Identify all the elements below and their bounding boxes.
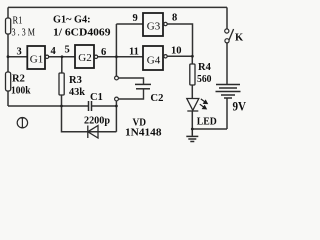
svg-text:4: 4 [51,46,57,57]
svg-text:5: 5 [65,45,70,56]
switch K [225,29,229,33]
svg-text:R4: R4 [198,62,212,73]
svg-text:3 . 3 M: 3 . 3 M [12,27,36,38]
svg-text:K: K [235,33,244,44]
junction node 5 [61,55,64,58]
svg-text:G4: G4 [147,54,161,66]
diode VD [88,126,98,139]
wire node8 to R4 [191,56,193,64]
svg-text:LED: LED [197,115,217,127]
junction node 6-11 [115,55,118,58]
gate G2 bubble [94,55,97,58]
wire left rail upper [7,7,9,18]
resistor R4 [190,64,195,85]
wire LED to bottom [191,111,193,129]
svg-text:9V: 9V [233,99,247,114]
svg-text:8: 8 [172,13,177,24]
svg-text:11: 11 [129,47,139,58]
svg-text:560: 560 [197,74,212,85]
wire pin8 [167,24,192,56]
wire top rail [8,6,227,8]
svg-text:R3: R3 [69,75,82,86]
svg-text:3: 3 [17,47,22,58]
wire C1 right [91,105,116,107]
wire battery bottom [226,98,228,129]
capacitor C2 leads [118,78,143,99]
gate G3 bubble [164,22,167,25]
gate G3 [143,13,163,36]
resistor R3 [59,73,64,95]
svg-text:R2: R2 [12,74,25,85]
figure number 1 [17,118,27,128]
capacitor C1 [89,101,92,111]
svg-text:2200p: 2200p [84,115,110,126]
gate G4 bubble [164,55,167,58]
junction C2 bottom [115,105,118,108]
svg-text:1/ 6CD4069: 1/ 6CD4069 [53,27,111,39]
svg-text:C1: C1 [90,92,103,103]
gate G1 bubble [45,55,48,58]
capacitor C2 [135,84,151,88]
wire left rail lower [7,34,9,106]
resistor R1 [6,18,11,34]
battery 9V [216,85,241,99]
wire pin10 [167,55,192,57]
wire node6 vertical [115,24,117,76]
svg-text:6: 6 [101,47,106,58]
wire diode branch [62,106,117,132]
svg-text:G3: G3 [147,21,161,33]
svg-text:100k: 100k [11,86,31,97]
gate G2 [75,45,94,68]
ground [186,129,198,142]
wire R4 to LED [191,85,193,99]
resistor R2 [6,72,11,91]
wire node5 to R3 [61,57,63,73]
svg-text:C2: C2 [150,93,163,104]
svg-text:9: 9 [133,13,138,24]
node terminal upper [115,76,119,80]
node terminal lower [115,97,119,101]
svg-text:1N4148: 1N4148 [125,128,162,139]
LED arrows [200,99,207,109]
wire switch to battery [226,43,228,85]
wire right rail upper [226,7,228,28]
junction LED ground [191,128,194,131]
gate G4 [143,46,163,70]
svg-text:10: 10 [171,46,182,57]
svg-text:G1~ G4:: G1~ G4: [53,14,91,26]
wire bottom right [192,128,227,130]
junction node pin3 [7,55,10,58]
LED [187,99,199,112]
svg-text:G1: G1 [30,53,43,65]
wire R3 bottom [61,95,63,106]
svg-text:R1: R1 [13,16,23,27]
wire C1 left [8,105,88,107]
wire pin4 to node5 [49,56,75,58]
wire C2 node vertical [115,101,117,132]
wire pin6 to pin11 [98,56,143,58]
svg-text:G2: G2 [78,52,91,64]
svg-text:43k: 43k [69,87,85,98]
junction R3 bottom [60,105,63,108]
wire pin9 [116,23,143,25]
wire pin3 [8,56,27,58]
gate G1 [27,46,45,69]
junction node 8-10 [191,55,194,58]
